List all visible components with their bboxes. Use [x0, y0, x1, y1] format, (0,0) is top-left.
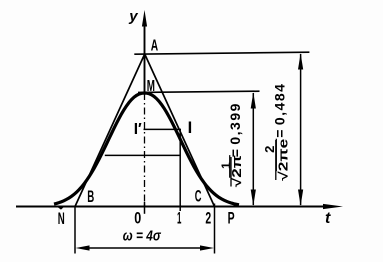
svg-text:I′: I′ [134, 121, 142, 138]
svg-text:1: 1 [177, 209, 181, 227]
A level line [134, 52, 309, 54]
svg-text:B: B [87, 188, 94, 206]
svg-text:2: 2 [205, 209, 211, 227]
svg-text:= 0,399: = 0,399 [227, 102, 243, 157]
y-axis [142, 10, 147, 93]
gauss curve [54, 93, 239, 205]
svg-text:N: N [58, 210, 65, 228]
svg-text:√2πe: √2πe [277, 139, 291, 181]
svg-text:√2π: √2π [230, 155, 244, 188]
svg-text:M: M [147, 78, 155, 95]
svg-text:P: P [228, 210, 235, 228]
tick t=0 [144, 202, 146, 214]
triangle side A-P [145, 54, 215, 207]
extension line at t=2 [214, 204, 216, 254]
junction blob of curve tail at axis [56, 206, 65, 210]
vertical at t=1 [179, 129, 181, 211]
triangle side A-N [75, 54, 145, 207]
svg-text:= 0,484: = 0,484 [271, 83, 287, 138]
label 1/sqrt(2pi)=0,399 rotated [219, 102, 244, 187]
I level line [144, 128, 182, 130]
construction line [105, 154, 181, 156]
dimension line 0.484 [298, 53, 303, 206]
label 2/sqrt(2pi e)=0,484 rotated [262, 83, 291, 181]
t-axis [16, 204, 343, 209]
svg-text:y: y [128, 8, 138, 25]
svg-text:I: I [188, 119, 193, 137]
dimension line 0.399 [251, 92, 256, 206]
svg-text:A: A [151, 38, 159, 55]
M level line [138, 91, 260, 92]
omega dimension line [76, 245, 215, 250]
svg-text:0: 0 [134, 209, 141, 227]
svg-text:ω = 4σ: ω = 4σ [123, 228, 162, 245]
centre dash-dot line [144, 93, 146, 207]
svg-text:C: C [195, 187, 202, 206]
svg-text:t: t [325, 210, 331, 227]
svg-text:2: 2 [262, 146, 277, 153]
dimension extension at N [74, 208, 76, 254]
